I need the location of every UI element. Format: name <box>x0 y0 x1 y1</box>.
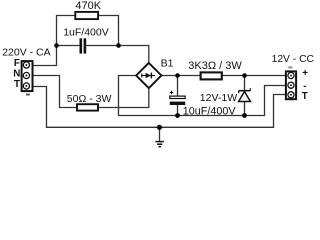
wire 10uF stem top <box>177 76 179 97</box>
wire ground stem <box>159 127 161 141</box>
wire 50ohm right to bridge bottom vertex <box>98 88 149 107</box>
wire T ground net: connector T right, down, bottom rail, up to connector T <box>33 87 285 128</box>
terminal T screw <box>23 83 29 89</box>
wire plus rail: 3K3 right to connector plus <box>222 75 285 77</box>
bridge rectifier B1 diamond <box>136 63 161 88</box>
wire N net: connector N right, down, to 50ohm left <box>33 76 77 108</box>
wire 1uF rail left segment <box>57 45 80 47</box>
terminal plus screw <box>288 72 294 78</box>
svg-text:3K3Ω / 3W: 3K3Ω / 3W <box>188 60 242 72</box>
wire plus rail: bridge right vertex to 3K3 left <box>161 75 200 77</box>
svg-text:12V - CC: 12V - CC <box>272 54 315 65</box>
node plus rail 10uF junction <box>175 73 180 78</box>
resistor R 3K3 3W <box>201 72 222 79</box>
node top rail cap junction <box>116 43 121 48</box>
polarity plus mark of 10uF <box>170 91 173 94</box>
wire zener stem bottom <box>244 102 246 116</box>
terminal N screw <box>23 72 29 78</box>
terminal T2 screw <box>288 92 294 98</box>
node ground junction <box>157 125 162 130</box>
resistor R 50ohm 3W <box>77 104 98 110</box>
connector CN1 bottom tab <box>26 94 30 96</box>
svg-text:+: + <box>302 68 308 79</box>
connector CN1 220V input box <box>22 61 33 91</box>
resistor R 470K <box>75 12 98 19</box>
node lower rail 10uF junction <box>175 113 180 118</box>
capacitor C 10uF/400V electrolytic <box>170 96 185 98</box>
svg-text:1uF/400V: 1uF/400V <box>63 26 109 38</box>
svg-text:T: T <box>302 91 308 102</box>
wire 1uF rail right segment, down to bridge top <box>86 46 149 63</box>
capacitor C 1uF/400V plates <box>80 38 87 53</box>
connector CN2 12V output box <box>286 71 296 99</box>
node F cap junction <box>54 43 59 48</box>
svg-text:B1: B1 <box>161 57 174 69</box>
svg-text:50Ω - 3W: 50Ω - 3W <box>67 93 112 105</box>
node lower rail zener junction <box>242 113 247 118</box>
svg-text:470K: 470K <box>75 0 101 12</box>
zener diode D 12V-1W <box>239 88 251 101</box>
node plus rail zener junction <box>242 73 247 78</box>
terminal F screw <box>23 62 29 68</box>
ground symbol <box>156 142 164 147</box>
svg-text:220V - CA: 220V - CA <box>2 47 50 59</box>
wire 10uF stem bottom <box>177 105 179 116</box>
wire top rail right of 470K, down to cap rail <box>98 16 118 46</box>
connector CN2 top tab <box>288 66 292 68</box>
svg-text:12V-1W: 12V-1W <box>200 92 237 104</box>
bridge internal diode symbol <box>141 73 155 79</box>
svg-text:T: T <box>14 79 20 90</box>
wire minus net: bridge left vertex, down, lower rail, up to connector minus <box>119 76 285 116</box>
wire F net: connector F right, up, top rail to 470K <box>33 16 76 66</box>
svg-text:10uF/400V: 10uF/400V <box>183 106 237 118</box>
wire zener stem top <box>244 76 246 91</box>
terminal minus screw <box>288 82 294 88</box>
svg-text:N: N <box>13 68 20 79</box>
